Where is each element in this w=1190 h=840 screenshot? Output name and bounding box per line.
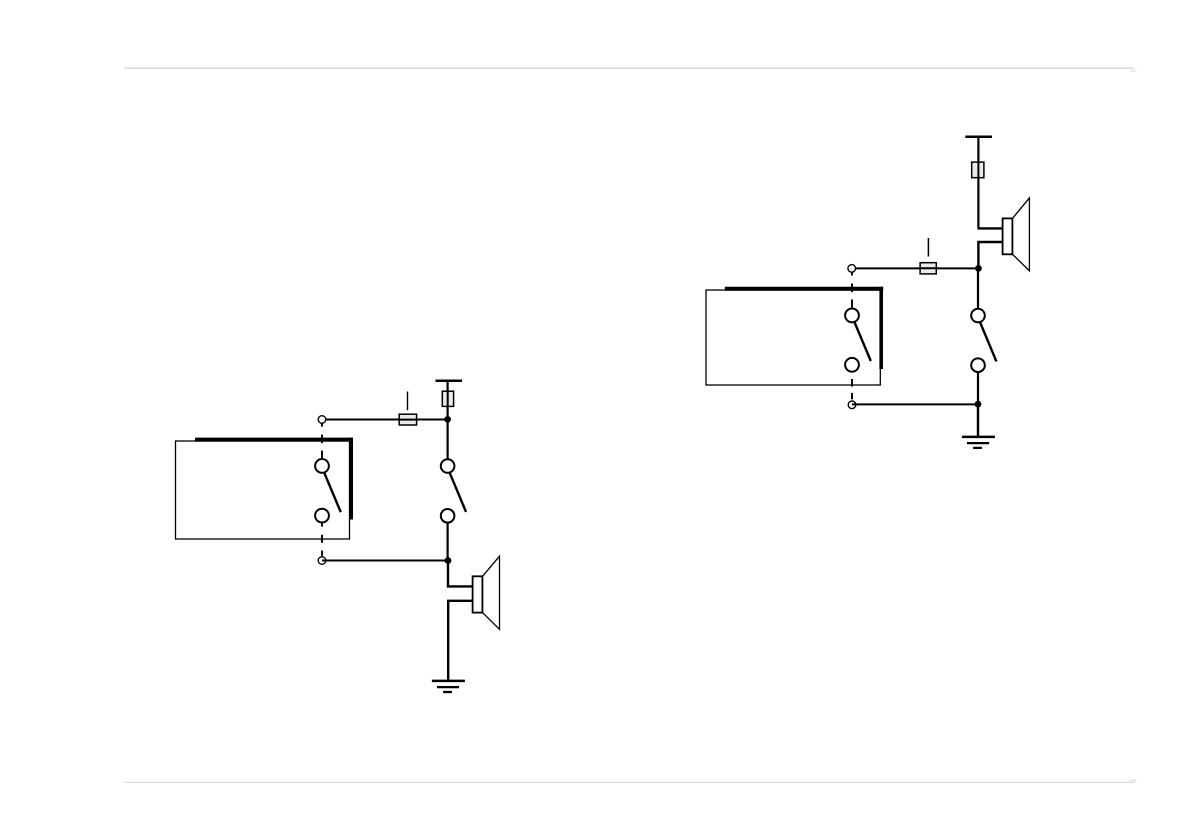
wire power drop right	[977, 137, 979, 230]
horn H2 cone	[1012, 198, 1029, 271]
relay K1 dashed link upper	[321, 423, 323, 458]
relay K2 dashed link upper	[851, 272, 853, 308]
node J3	[975, 265, 982, 272]
wire switch to node	[447, 522, 449, 560]
relay K1 coil bar horizontal	[195, 438, 353, 442]
fuse F4	[972, 162, 984, 178]
footer artifact mark	[1130, 779, 1137, 781]
fuse F1	[399, 414, 416, 425]
relay K1 box	[176, 441, 350, 539]
fuse F3	[920, 263, 936, 274]
wire node to ground right	[977, 404, 979, 437]
horn H1 cone	[482, 556, 499, 629]
header artifact mark	[1130, 70, 1137, 72]
relay K1 terminal pin 86	[318, 416, 326, 424]
header rule	[124, 67, 1135, 69]
switch S2 contact upper	[971, 309, 985, 323]
relay K1 contact lower	[315, 509, 329, 523]
relay K1 coil bar vertical	[349, 438, 353, 520]
power rail bar B+	[436, 379, 463, 382]
wire to horn right	[978, 227, 1003, 229]
horn H2 body	[1003, 218, 1013, 254]
relay K2 box	[706, 290, 880, 385]
wire top feed	[322, 419, 448, 421]
relay K2 contact upper	[845, 309, 859, 323]
wire switch to node right	[977, 372, 979, 404]
horn H1 body	[473, 576, 483, 612]
power rail bar B+ right	[965, 136, 992, 139]
node J1	[444, 416, 451, 423]
wire horn to node right	[978, 242, 1003, 268]
wire switch drop right	[977, 268, 979, 309]
node J2	[445, 557, 452, 564]
wire horn to ground	[448, 601, 473, 681]
relay K2 terminal pin 85	[848, 401, 856, 409]
relay K1 terminal pin 85	[318, 557, 326, 565]
relay K1 contact upper	[315, 459, 329, 473]
switch S2 contact lower	[971, 358, 985, 372]
wire bottom return	[322, 560, 448, 562]
switch S1 contact lower	[441, 509, 455, 523]
switch S1 blade	[450, 472, 467, 512]
ground left	[432, 681, 465, 692]
wire to horn	[448, 561, 474, 587]
footer rule	[124, 781, 1135, 783]
wire bottom return right	[852, 403, 978, 405]
fuse F3 leader line	[927, 238, 929, 257]
wire switch drop	[447, 420, 449, 460]
switch S2 blade	[980, 322, 997, 362]
relay K2 blade	[854, 321, 871, 361]
relay K2 dashed link lower	[851, 379, 853, 399]
relay K1 dashed link lower	[321, 523, 323, 556]
fuse F1 leader line	[407, 392, 409, 411]
relay K2 terminal pin 86	[848, 265, 856, 273]
switch S1 contact upper	[441, 459, 455, 473]
relay K2 contact lower	[845, 358, 859, 372]
relay K1 blade	[324, 472, 341, 512]
fuse F2	[442, 391, 453, 406]
relay K2 coil bar horizontal	[725, 287, 883, 291]
relay K2 coil bar vertical	[879, 287, 883, 369]
wire top feed right	[852, 267, 979, 269]
wire power drop	[447, 381, 449, 420]
ground right	[962, 437, 995, 448]
node J4	[975, 401, 982, 408]
